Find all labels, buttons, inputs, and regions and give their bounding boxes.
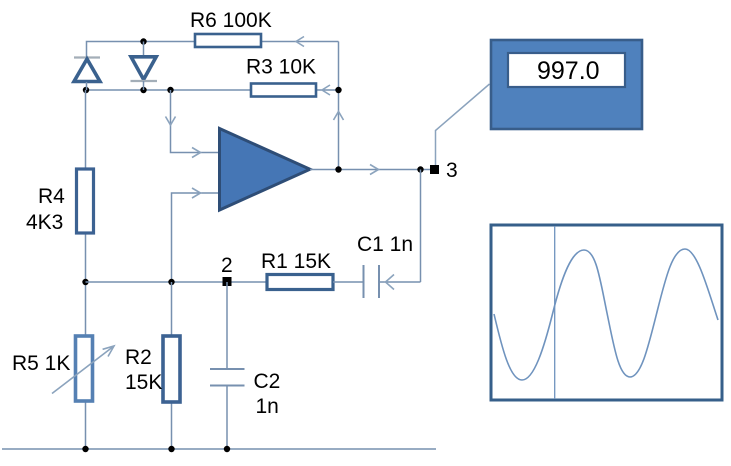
wire R3 to right vertical <box>316 89 339 91</box>
svg-text:997.0: 997.0 <box>537 57 600 85</box>
node junction feedback takeoff <box>335 166 341 172</box>
resistor R2 <box>163 336 180 402</box>
capacitor C2 <box>210 369 245 386</box>
wire node2 horizontal <box>86 281 268 283</box>
resistor R3 <box>251 84 316 97</box>
node junction R2 to rail <box>168 446 174 452</box>
node 2 terminal square <box>223 277 232 286</box>
wire left column (diodes to ground rail) <box>85 90 87 449</box>
op-amp U1 <box>220 129 311 211</box>
arrow right into inverting input <box>192 188 201 198</box>
svg-text:R4: R4 <box>38 185 65 208</box>
wire probe link to frequency display <box>436 84 490 165</box>
resistor R1 <box>267 275 333 290</box>
wire inverting input <box>172 193 220 282</box>
wire noninverting input <box>171 90 220 153</box>
svg-text:R6 100K: R6 100K <box>190 9 272 32</box>
wire op-amp output <box>310 169 431 171</box>
svg-text:1n: 1n <box>256 395 279 418</box>
node junction D1 bottom <box>83 87 89 93</box>
arrow into R3 (pointing left) <box>322 85 330 95</box>
oscilloscope sine trace <box>494 249 718 380</box>
svg-text:R2: R2 <box>125 346 152 369</box>
diode D1 <box>74 58 100 91</box>
oscilloscope trigger line <box>554 226 556 399</box>
wire right feedback vertical <box>338 42 340 170</box>
frequency display readout window <box>508 53 625 87</box>
arrow left into C1 <box>386 275 395 290</box>
node junction noninverting branch <box>167 87 173 93</box>
svg-text:2: 2 <box>221 254 233 277</box>
wire lower rail to R3 <box>86 89 251 91</box>
node junction output branch <box>417 166 423 172</box>
resistor R4 <box>77 169 94 233</box>
arrow up on right feedback vertical <box>334 112 344 121</box>
svg-text:R5 1K: R5 1K <box>12 352 70 375</box>
frequency display box <box>491 40 642 129</box>
svg-text:R3 10K: R3 10K <box>246 56 316 79</box>
capacitor C1 <box>364 265 380 298</box>
svg-text:3: 3 <box>446 159 458 182</box>
arrow across R5 (potentiometer) <box>52 346 114 394</box>
node junction R5 to rail <box>82 446 88 452</box>
svg-text:R1 15K: R1 15K <box>261 250 331 273</box>
wire R2 column <box>171 282 173 449</box>
wire ground rail <box>2 448 436 450</box>
arrow right into noninverting input <box>192 148 201 158</box>
diode D2 <box>131 42 158 91</box>
resistor R6 <box>195 34 261 47</box>
node junction R4 bottom / feedback tap <box>82 279 88 285</box>
node junction inverting column <box>168 279 174 285</box>
svg-text:15K: 15K <box>125 371 162 394</box>
node junction C2 to rail <box>224 446 230 452</box>
node junction above diode D2 <box>140 38 146 44</box>
resistor R5 (variable) <box>76 336 93 401</box>
node 3 terminal square <box>430 165 439 174</box>
wire top feedback rail <box>87 42 339 58</box>
svg-text:C1 1n: C1 1n <box>357 233 413 256</box>
svg-text:4K3: 4K3 <box>26 211 63 234</box>
wire output down to C1 <box>420 170 422 283</box>
oscilloscope frame <box>491 225 722 400</box>
wire C2 column <box>226 282 228 369</box>
wire R1 to C1 <box>333 281 364 283</box>
node junction R3 right <box>335 87 341 93</box>
svg-text:C2: C2 <box>254 370 281 393</box>
arrow down on noninverting branch <box>166 117 176 126</box>
arrow right on output wire <box>370 165 379 175</box>
wire C1 to right vertical <box>379 281 421 283</box>
arrow on top wire (pointing left into R6) <box>296 37 304 47</box>
node junction D2 bottom <box>140 87 146 93</box>
